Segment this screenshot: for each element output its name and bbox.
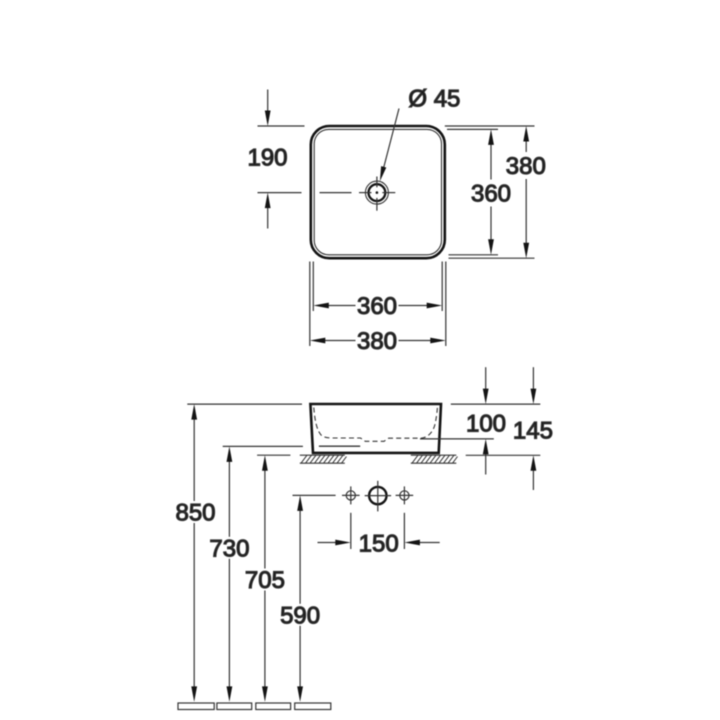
countertop hatch right xyxy=(411,455,458,463)
svg-text:150: 150 xyxy=(359,530,399,557)
svg-text:590: 590 xyxy=(280,602,320,629)
label diameter 45 arrowhead xyxy=(380,166,386,181)
extension line 730 xyxy=(223,445,303,447)
basin interior dashed contour (side view) xyxy=(314,407,438,441)
dimension 850 line xyxy=(191,404,197,702)
drain hole outer circle xyxy=(365,181,388,204)
dimension 360 right extension top xyxy=(447,128,498,130)
dimension 705 line xyxy=(262,455,268,702)
basin inner rim contour (top view) xyxy=(314,129,441,254)
floor tile 4 xyxy=(295,703,331,710)
dimension 100 lower arrow xyxy=(483,439,489,475)
svg-text:730: 730 xyxy=(209,535,249,562)
svg-text:850: 850 xyxy=(175,500,215,527)
svg-text:Ø 45: Ø 45 xyxy=(408,85,460,112)
dimension 360 bottom line and arrows xyxy=(313,303,442,309)
bottom extension line outer right xyxy=(445,262,447,347)
svg-text:705: 705 xyxy=(245,567,285,594)
basin interior bottom solid line xyxy=(319,445,360,447)
svg-text:360: 360 xyxy=(471,181,511,208)
svg-text:100: 100 xyxy=(466,410,506,437)
dimension 360 right extension bottom xyxy=(449,254,499,256)
floor tile 3 xyxy=(256,703,291,710)
dimension 150 extension right xyxy=(403,513,405,549)
dimension 190 extension line bottom xyxy=(258,192,302,194)
dimension 190 upper arrow xyxy=(265,90,271,127)
tap hole left small circle xyxy=(342,486,360,504)
dimension 100 upper arrow xyxy=(483,367,489,404)
dimension 190 extension line top xyxy=(258,125,305,127)
drain centerline horizontal xyxy=(320,192,396,194)
dimension 145 lower arrow xyxy=(531,455,537,490)
svg-text:190: 190 xyxy=(247,145,287,172)
dimension 380 right arrows xyxy=(523,126,529,258)
dimension 190 lower arrow xyxy=(265,193,271,229)
floor tile 2 xyxy=(217,703,252,710)
dimension 380 right extension top xyxy=(445,125,535,127)
dimension 380 bottom line and arrows xyxy=(310,338,446,344)
extension line 590 xyxy=(293,494,336,496)
svg-text:380: 380 xyxy=(357,328,397,355)
bottom extension line inner left xyxy=(312,262,314,312)
label diameter 45 leader line xyxy=(382,109,400,177)
dimension 150 extension left xyxy=(350,513,352,549)
dimension 360 right line xyxy=(490,142,492,243)
extension line top right (100/145 datum) xyxy=(451,403,541,405)
extension line top left (850 datum) xyxy=(187,403,302,405)
tap hole right small circle xyxy=(396,486,414,504)
drain center dot xyxy=(376,191,379,194)
extension line 705 xyxy=(257,454,290,456)
bottom extension line outer left xyxy=(309,262,311,347)
dimension 590 line xyxy=(297,495,303,702)
dimension 360 right arrows xyxy=(488,129,494,254)
dimension 145 upper arrow xyxy=(531,367,537,404)
svg-text:380: 380 xyxy=(506,153,546,180)
tap hole center circle xyxy=(365,481,391,512)
dimension 380 right line xyxy=(525,138,527,246)
svg-text:145: 145 xyxy=(513,417,553,444)
drain centerline vertical xyxy=(376,177,378,211)
dimension 150 line and arrows xyxy=(318,540,440,546)
floor tile 1 xyxy=(178,703,214,710)
basin outline (side view) xyxy=(310,404,441,453)
countertop hatch left xyxy=(300,455,347,463)
bottom extension line inner right xyxy=(441,262,443,312)
dimension 145 extension bottom xyxy=(466,454,541,456)
dimension 730 line xyxy=(227,446,233,702)
drain hole thick circle xyxy=(369,184,386,201)
extension line 100 lower (interior bottom level) xyxy=(420,438,494,440)
basin outer rim (top view) xyxy=(311,126,445,258)
svg-text:360: 360 xyxy=(357,293,397,320)
dimension 380 right extension bottom xyxy=(449,257,535,259)
